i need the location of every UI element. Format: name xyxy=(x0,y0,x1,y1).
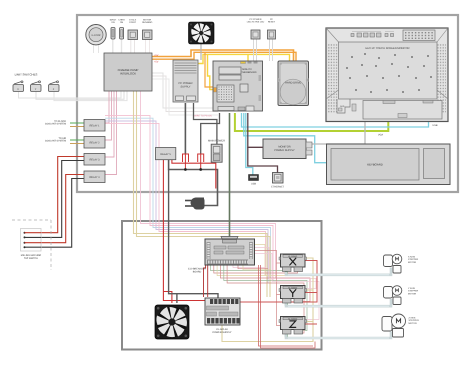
limit switch Z xyxy=(49,81,60,92)
svg-text:ETHERNET: ETHERNET xyxy=(271,186,284,189)
wire yellow branch to motherboard top xyxy=(247,54,249,61)
wire ac ps-on from motherboard xyxy=(201,113,220,154)
wire breakout aux drops xyxy=(233,265,266,268)
button cycle start xyxy=(128,19,138,40)
wire red relay5 to main switch xyxy=(172,160,216,189)
wire switch mach-on to charge pump xyxy=(112,39,114,53)
wire relay 1 green to flood coolant xyxy=(70,122,84,124)
wire ac dark down to fan and kl psu xyxy=(169,170,218,299)
wire button cycle-start to charge pump xyxy=(130,40,132,54)
wire yellow psu to hdd xyxy=(198,54,290,63)
motor Y xyxy=(384,286,419,305)
tap switch dashed boundary xyxy=(12,220,51,270)
enclosure bottom box xyxy=(122,221,322,350)
wire charge pump to relay 2 xyxy=(105,91,112,140)
svg-text:RUNNING: RUNNING xyxy=(142,21,153,24)
svg-text:COOLANT SYSTEM: COOLANT SYSTEM xyxy=(45,140,66,143)
svg-text:USB: USB xyxy=(433,124,438,127)
usb port xyxy=(249,175,259,186)
wire bundle X driver to X motor xyxy=(286,268,391,275)
wire relay 4 black to tap switch xyxy=(41,179,84,248)
svg-text:STEPPER: STEPPER xyxy=(409,319,420,322)
wire main power switch to psu xyxy=(194,103,217,144)
right edge bits xyxy=(259,75,262,81)
wire breakout red pair to kl psu xyxy=(207,265,209,297)
wire red power rail psu to drivers xyxy=(240,261,317,303)
svg-text:ELO 15" TOUCH SCREEN MONITOR: ELO 15" TOUCH SCREEN MONITOR xyxy=(365,47,409,50)
button motor running xyxy=(142,19,153,40)
wire breakout signals to drivers xyxy=(211,265,287,271)
relay 1 xyxy=(84,120,105,132)
wire bundle Z driver to Z motor xyxy=(286,332,391,339)
svg-text:RELAY 1: RELAY 1 xyxy=(89,125,100,128)
switch mach on xyxy=(110,19,117,40)
svg-text:OSD: OSD xyxy=(340,105,345,108)
svg-text:STEPPER: STEPPER xyxy=(408,258,419,261)
bottom terminal strip xyxy=(207,260,248,265)
svg-text:INTERLOCK: INTERLOCK xyxy=(120,72,136,76)
wire limit switch Y to charge pump xyxy=(36,91,124,99)
wire e-stop to charge pump xyxy=(93,44,95,53)
svg-text:MOTOR: MOTOR xyxy=(408,261,417,264)
enclosure top box xyxy=(77,15,458,192)
svg-text:KEYBOARD: KEYBOARD xyxy=(367,163,383,167)
svg-text:HARD DRIVE: HARD DRIVE xyxy=(285,82,301,85)
motherboard xyxy=(213,61,263,111)
wire limit switch Z to charge pump xyxy=(54,91,127,101)
left pin header xyxy=(207,242,211,259)
wire pc power led to motherboard xyxy=(253,39,255,61)
pc fan top xyxy=(189,22,215,44)
wire touch cyan motherboard to monitor xyxy=(242,113,429,127)
svg-text:Y AXIS: Y AXIS xyxy=(408,287,415,290)
pc reset button xyxy=(268,18,276,39)
svg-text:KL-5056D: KL-5056D xyxy=(288,317,298,320)
wire parallel cable motherboard to breakout xyxy=(229,113,231,237)
wire charge pump right signals down right side xyxy=(152,73,218,108)
svg-text:STEPPER: STEPPER xyxy=(408,290,419,293)
svg-text:Z AXIS: Z AXIS xyxy=(409,317,416,320)
svg-text:VGA: VGA xyxy=(378,134,383,137)
svg-text:BOARD: BOARD xyxy=(193,270,202,273)
svg-text:POWER SUPPLY: POWER SUPPLY xyxy=(213,331,232,334)
svg-text:KL-5056D: KL-5056D xyxy=(288,255,298,258)
driver Y xyxy=(279,286,307,304)
wire charge pump to relay 1 xyxy=(105,91,109,123)
wire red pair breakout to driver rail xyxy=(259,265,314,346)
svg-text:RELAY 3: RELAY 3 xyxy=(89,159,100,162)
ram slots xyxy=(219,67,241,74)
svg-text:TO FLOOD: TO FLOOD xyxy=(54,120,66,123)
svg-text:RESET: RESET xyxy=(268,21,276,24)
driver X xyxy=(279,254,307,272)
charge pump interlock xyxy=(104,53,152,91)
motor Z xyxy=(382,314,419,337)
svg-text:WIRE TO PS-ON: WIRE TO PS-ON xyxy=(194,115,212,118)
switch chrg on xyxy=(118,19,125,40)
wire ac bus bar xyxy=(169,160,218,206)
pc power supply xyxy=(173,60,198,102)
svg-text:START: START xyxy=(129,21,137,24)
svg-text:+5V: +5V xyxy=(154,54,159,57)
bottom fan xyxy=(155,305,189,339)
svg-text:X AXIS: X AXIS xyxy=(408,256,415,259)
wire tan power rail psu to drivers xyxy=(222,258,313,342)
wire ac psu cord down to junction xyxy=(184,103,186,154)
relay 3 xyxy=(84,154,105,166)
svg-text:RELAY 5: RELAY 5 xyxy=(160,153,171,156)
wire pc reset to motherboard xyxy=(269,39,271,61)
svg-text:KL-5056D: KL-5056D xyxy=(288,286,298,289)
wire tan pair charge pump to kl psu xyxy=(134,91,268,297)
relay 2 xyxy=(84,137,105,149)
svg-text:+5V: +5V xyxy=(154,61,159,64)
svg-text:LED ACTIVE LED: LED ACTIVE LED xyxy=(247,21,265,24)
svg-text:ON: ON xyxy=(120,21,124,24)
svg-text:TAP SWITCH: TAP SWITCH xyxy=(24,257,38,260)
wire gray monitor psu to monitor xyxy=(306,122,365,145)
wire relay pink bundle to breakout xyxy=(105,116,273,282)
wire limit switch X to charge pump xyxy=(19,91,122,98)
wire +5V orange pair charge pump to HDD xyxy=(152,50,294,61)
internal bits xyxy=(214,246,226,249)
left edge connector xyxy=(214,88,217,93)
driver Z xyxy=(279,317,307,335)
svg-text:TO AIR: TO AIR xyxy=(59,137,67,140)
monitor power supply xyxy=(263,139,312,159)
main power switch xyxy=(208,140,225,163)
wire relay 3 black to tap switch xyxy=(41,161,84,238)
top right dotted connector xyxy=(403,30,435,41)
breakout board xyxy=(188,237,255,274)
wire maroon motherboard to monitor psu and ethernet xyxy=(248,113,263,147)
bottom connectors xyxy=(218,107,234,111)
bottom panel details xyxy=(337,99,350,113)
wire switch chrg-on to charge pump xyxy=(121,39,123,53)
wire vga green motherboard to monitor xyxy=(235,113,388,131)
junction nut 2 xyxy=(198,154,204,162)
milling machine tap switch xyxy=(21,229,42,260)
svg-text:MOTOR: MOTOR xyxy=(408,292,417,295)
wire button motor-running to charge pump xyxy=(145,40,147,54)
svg-text:POWER SUPPLY: POWER SUPPLY xyxy=(274,149,295,152)
vent dot grids left/right xyxy=(328,44,338,113)
screws xyxy=(346,53,432,93)
wire fan to psu xyxy=(200,44,202,60)
svg-text:RELAY 4: RELAY 4 xyxy=(89,176,100,179)
connector X bundle xyxy=(285,271,288,274)
motor X xyxy=(384,254,419,273)
wire charge pump to relay 3 xyxy=(105,91,114,157)
wire yellow branch to motherboard left xyxy=(208,54,214,89)
connector Y bundle xyxy=(285,303,288,306)
back cover xyxy=(339,42,438,99)
cpu grid xyxy=(217,85,234,102)
svg-text:MILLING MACHINE: MILLING MACHINE xyxy=(21,254,42,257)
wire red relay5 down to kl psu xyxy=(163,160,215,301)
wire bundle Y driver to Y motor xyxy=(286,299,391,306)
svg-text:MAIN POWER: MAIN POWER xyxy=(208,140,225,143)
svg-text:E-STOP: E-STOP xyxy=(92,34,101,37)
svg-text:SUPPLY: SUPPLY xyxy=(180,86,190,89)
limit switch X xyxy=(13,81,24,92)
wire charge pump to relay 4 xyxy=(105,91,117,175)
svg-text:ON: ON xyxy=(111,21,115,24)
wire relay 3 red to tap switch xyxy=(41,157,84,233)
wire relay 4 red to tap switch xyxy=(41,175,84,243)
relay 5 xyxy=(156,148,176,160)
relay 4 xyxy=(84,171,105,183)
wire keyboard cyan motherboard to keyboard xyxy=(244,113,326,163)
ac plug xyxy=(185,197,205,209)
e-stop button xyxy=(86,25,106,45)
svg-text:LIMIT SWITCHES: LIMIT SWITCHES xyxy=(15,73,38,77)
right pin header xyxy=(249,242,253,259)
svg-text:COOLANT SYSTEM: COOLANT SYSTEM xyxy=(45,123,66,126)
ethernet port xyxy=(271,173,284,189)
keyboard xyxy=(327,144,451,185)
connector Z bundle xyxy=(285,334,288,337)
svg-text:USB: USB xyxy=(251,183,256,186)
svg-text:RELAY 2: RELAY 2 xyxy=(89,142,100,145)
limit switch Y xyxy=(31,81,42,92)
chipset xyxy=(240,84,248,92)
top connector row xyxy=(357,33,362,37)
wire usb cyan motherboard to usb port xyxy=(246,113,253,175)
pc power led button xyxy=(247,18,265,39)
kl psu xyxy=(205,298,240,334)
top edge connectors xyxy=(241,62,246,64)
monitor xyxy=(326,28,448,122)
junction nut 1 xyxy=(183,154,189,162)
wire pink charge pump down xyxy=(141,91,276,279)
hard drive xyxy=(278,61,309,106)
svg-text:MOTOR: MOTOR xyxy=(409,322,418,325)
wire relay 2 green to air coolant xyxy=(70,139,84,141)
wire breakout right to driver left pins xyxy=(254,245,265,276)
